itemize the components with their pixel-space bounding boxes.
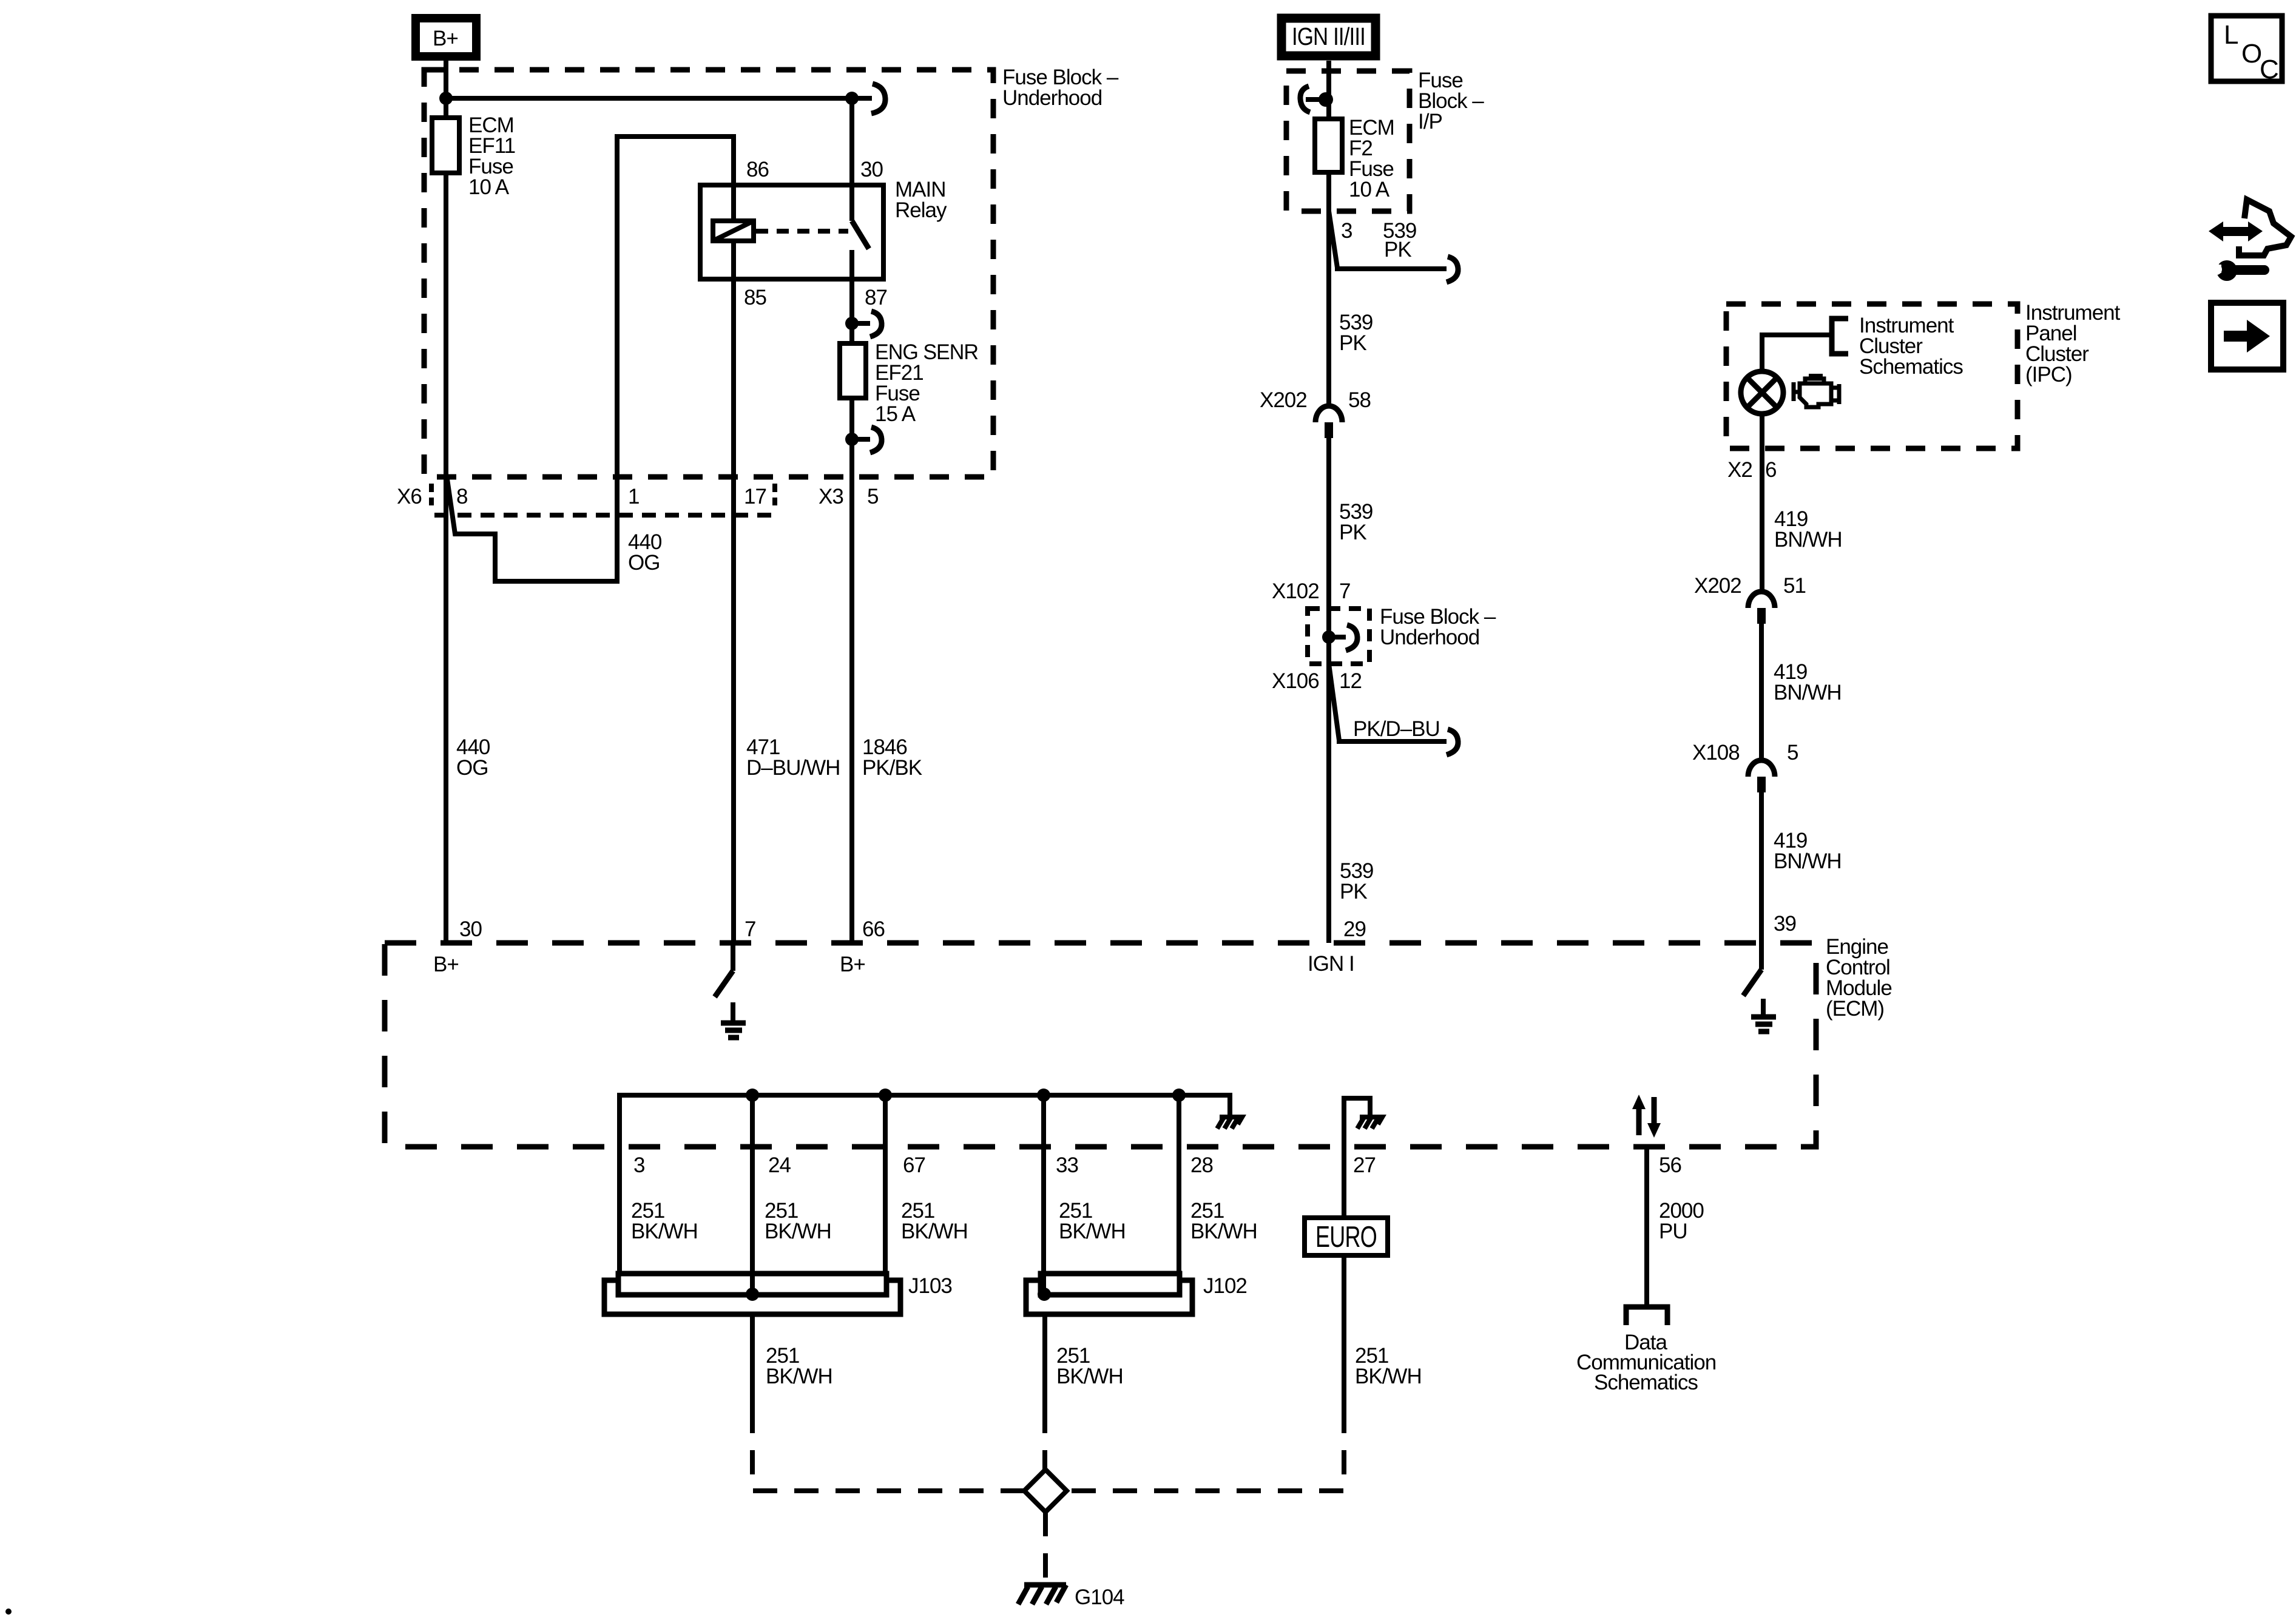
svg-text:58: 58 — [1348, 388, 1371, 412]
wire 251 BK/WH below J103 — [750, 1314, 755, 1409]
svg-text:7: 7 — [745, 917, 755, 941]
svg-text:X106: X106 — [1272, 669, 1319, 693]
svg-text:8: 8 — [456, 485, 467, 508]
svg-text:IGN I: IGN I — [1308, 952, 1354, 976]
svg-text:PK: PK — [1340, 880, 1367, 903]
splice pack J102 — [1026, 1274, 1192, 1314]
svg-text:X2: X2 — [1727, 458, 1752, 482]
wire 251 BK/WH below J102 — [1042, 1314, 1047, 1409]
connector X108 pin 5 in-line — [1748, 760, 1775, 792]
label wire 419 BN/WH lower — [1774, 829, 1842, 873]
label wire 251 BK/WH pin67 — [901, 1199, 968, 1243]
dashed box small Fuse Block - Underhood — [1308, 609, 1369, 664]
connector clip at F2 feed — [1300, 86, 1329, 112]
ground switch at ECM pin 7 — [715, 943, 733, 997]
node bus pin 67 — [879, 1089, 892, 1102]
svg-text:BK/WH: BK/WH — [765, 1220, 831, 1243]
wire ECM pin 28 — [1177, 1095, 1181, 1274]
svg-text:(ECM): (ECM) — [1826, 997, 1884, 1021]
label wire 419 BN/WH middle — [1774, 660, 1842, 704]
engine icon — [1794, 374, 1839, 407]
data link arrows at pin 56 — [1632, 1095, 1661, 1138]
label wire 251 BK/WH pin24 — [765, 1199, 831, 1243]
node junction at F2 feed — [1319, 92, 1333, 107]
svg-text:27: 27 — [1353, 1153, 1376, 1177]
svg-text:86: 86 — [746, 158, 769, 181]
wire lamp to cluster link — [1762, 335, 1832, 371]
indicator lamp MIL — [1741, 371, 1783, 414]
wire J102 feed pin 33 — [1041, 1274, 1046, 1294]
svg-text:Underhood: Underhood — [1380, 626, 1479, 649]
receptacle to data communication — [1626, 1307, 1667, 1325]
svg-text:51: 51 — [1783, 574, 1806, 598]
label wire 539 PK above X202 — [1339, 311, 1373, 355]
svg-text:39: 39 — [1774, 912, 1796, 936]
ground switch at ECM pin 39 — [1743, 943, 1761, 996]
label wire 2000 PU — [1659, 1199, 1704, 1243]
svg-text:BK/WH: BK/WH — [1059, 1220, 1126, 1243]
connector X6 dashed bracket — [431, 484, 775, 515]
svg-text:X6: X6 — [397, 485, 422, 508]
legend box LOC — [2211, 16, 2282, 84]
node junction at B+ feed — [439, 92, 453, 105]
label wire 471 D-BU/WH — [746, 735, 840, 780]
wire J103 feed pin 24 — [750, 1274, 755, 1294]
node in-line connector above EF21 — [845, 317, 859, 330]
node junction inside small fuse block — [1322, 630, 1335, 644]
svg-text:X102: X102 — [1272, 579, 1319, 603]
dashed ground wire from J102 — [1042, 1409, 1047, 1470]
chassis ground at bus end — [1217, 1117, 1242, 1129]
label fuse EF11 — [468, 113, 515, 199]
connector clip at end of B+ bus — [871, 84, 885, 113]
node J103 junction — [746, 1288, 759, 1301]
wire fuse EF21 to X3 pin 5 — [849, 398, 854, 477]
label Fuse Block - Underhood — [1002, 66, 1119, 110]
svg-text:J102: J102 — [1203, 1274, 1247, 1298]
label fuse F2 — [1349, 116, 1394, 201]
ECM internal ground bus — [620, 1095, 1230, 1274]
label MAIN Relay — [895, 178, 947, 222]
wire 419 BN/WH lower — [1759, 792, 1764, 943]
svg-text:15 A: 15 A — [875, 402, 916, 426]
label Instrument Cluster Schematics — [1859, 314, 1963, 379]
svg-text:PK: PK — [1384, 238, 1411, 262]
svg-text:5: 5 — [1787, 741, 1798, 765]
label wire 539 PK lower — [1340, 859, 1373, 903]
svg-text:24: 24 — [768, 1153, 791, 1177]
connector X202 pin 51 in-line — [1748, 592, 1775, 624]
svg-text:EURO: EURO — [1315, 1221, 1377, 1254]
svg-text:67: 67 — [903, 1153, 925, 1177]
dashed box Fuse Block - I/P — [1286, 71, 1410, 211]
svg-text:B+: B+ — [840, 953, 865, 976]
node bus pin 33 — [1037, 1089, 1050, 1102]
dashed box Engine Control Module ECM — [385, 943, 1816, 1147]
svg-text:BK/WH: BK/WH — [631, 1220, 698, 1243]
svg-text:(IPC): (IPC) — [2025, 363, 2072, 387]
svg-text:29: 29 — [1343, 917, 1366, 941]
node junction at relay pin 30 branch — [845, 92, 859, 105]
connector clip inside small fuse block — [1329, 625, 1357, 650]
node bus pin 24 — [746, 1089, 759, 1102]
svg-text:B+: B+ — [433, 953, 459, 976]
label wire 539 PK below X202 — [1339, 500, 1373, 544]
svg-text:X108: X108 — [1692, 741, 1740, 765]
svg-text:PK: PK — [1339, 521, 1366, 544]
svg-text:7: 7 — [1339, 579, 1350, 603]
label small Fuse Block - Underhood — [1380, 605, 1496, 649]
svg-text:30: 30 — [459, 917, 482, 941]
svg-text:BK/WH: BK/WH — [1355, 1365, 1422, 1388]
wire tap 539 PK at pin 3 — [1329, 211, 1458, 282]
label Instrument Panel Cluster (IPC) — [2025, 301, 2121, 387]
svg-text:10 A: 10 A — [468, 175, 510, 199]
relay actuation dashed link — [756, 229, 848, 234]
wire EURO ground jog — [1344, 1098, 1370, 1218]
svg-text:28: 28 — [1190, 1153, 1213, 1177]
svg-text:IGN II/III: IGN II/III — [1292, 22, 1365, 50]
svg-text:D–BU/WH: D–BU/WH — [746, 756, 840, 780]
relay switch contact — [852, 98, 869, 279]
dashed ground wire from J103 — [752, 1409, 1024, 1491]
svg-text:G104: G104 — [1075, 1585, 1124, 1609]
svg-text:BN/WH: BN/WH — [1774, 681, 1842, 704]
splice pack J103 — [604, 1274, 900, 1314]
label wire 440 OG — [456, 735, 490, 780]
page dot — [5, 1609, 12, 1615]
icon double arrow — [2209, 221, 2263, 241]
ground G104 — [1018, 1585, 1066, 1604]
node in-line connector below EF21 — [845, 433, 859, 446]
svg-text:6: 6 — [1765, 458, 1776, 482]
earth ground at pin 7 — [721, 1002, 746, 1038]
svg-text:Schematics: Schematics — [1594, 1371, 1698, 1394]
svg-text:66: 66 — [862, 917, 885, 941]
svg-text:PK: PK — [1339, 331, 1366, 355]
node J102 junction — [1038, 1288, 1051, 1301]
svg-text:J103: J103 — [908, 1274, 952, 1298]
svg-text:17: 17 — [744, 485, 766, 508]
svg-text:1: 1 — [628, 485, 639, 508]
label Data Communication Schematics — [1576, 1331, 1716, 1394]
svg-text:OG: OG — [456, 756, 488, 780]
wire IGN II/III feed — [1326, 61, 1331, 119]
svg-text:PK/BK: PK/BK — [862, 756, 922, 780]
label wire 539 PK tap — [1383, 219, 1416, 262]
wire 419 BN/WH middle — [1759, 624, 1764, 760]
wire tap PK/D-BU — [1329, 664, 1458, 755]
svg-text:PU: PU — [1659, 1220, 1687, 1243]
svg-text:10 A: 10 A — [1349, 178, 1390, 201]
wire ECM pin 33 — [1041, 1095, 1046, 1274]
earth ground at pin 39 — [1751, 999, 1776, 1031]
svg-text:3: 3 — [1341, 219, 1352, 243]
wire ECM pin 67 — [883, 1095, 888, 1274]
label Engine Control Module (ECM) — [1826, 935, 1892, 1021]
flag EURO — [1305, 1218, 1388, 1255]
connector X202 pin 58 in-line — [1315, 406, 1342, 438]
svg-text:3: 3 — [633, 1153, 644, 1177]
svg-text:Relay: Relay — [895, 198, 947, 222]
label wire 419 BN/WH upper — [1774, 507, 1842, 552]
label Fuse Block - I/P — [1418, 69, 1484, 133]
svg-text:BK/WH: BK/WH — [1056, 1365, 1123, 1388]
svg-text:I/P: I/P — [1418, 110, 1442, 133]
wire fuse F2 down — [1326, 172, 1331, 406]
svg-text:C: C — [2260, 55, 2278, 84]
legend arrow box — [2211, 303, 2283, 370]
svg-text:30: 30 — [860, 158, 883, 181]
svg-text:33: 33 — [1056, 1153, 1078, 1177]
svg-text:BK/WH: BK/WH — [766, 1365, 832, 1388]
svg-text:O: O — [2241, 39, 2261, 69]
connector clip above EF21 — [852, 311, 882, 337]
wire from B+ flag to fuse block — [444, 61, 448, 98]
label wire 251 BK/WH pin28 — [1190, 1199, 1257, 1243]
relay coil — [713, 185, 754, 279]
relay MAIN box — [700, 185, 883, 279]
dashed ground wire from EURO — [1067, 1409, 1344, 1491]
wire relay pin 87 to fuse EF21 — [849, 279, 854, 343]
connector clip below EF21 — [852, 427, 882, 453]
wire 471 D-BU/WH to ECM pin 7 — [731, 477, 736, 943]
wire ECM pin 24 — [750, 1095, 755, 1274]
wire 1846 PK/BK to ECM pin 66 — [849, 477, 854, 943]
label wire 251 BK/WH below EURO — [1355, 1344, 1422, 1388]
node bus pin 28 — [1172, 1089, 1186, 1102]
icon electrical diagnosis connector — [2239, 200, 2291, 255]
wire B+ bus inside fuse block — [446, 96, 872, 101]
power flag B+ — [416, 18, 476, 56]
svg-text:87: 87 — [865, 286, 887, 309]
label wire 251 BK/WH below J103 — [766, 1344, 832, 1388]
label wire 251 BK/WH pin33 — [1059, 1199, 1126, 1243]
svg-text:X3: X3 — [819, 485, 843, 508]
wire 2000 PU — [1644, 1147, 1649, 1305]
svg-text:5: 5 — [867, 485, 878, 508]
label wire 251 BK/WH below J102 — [1056, 1344, 1123, 1388]
wire jog from pin 8 to pin 1 (440 OG loop) — [447, 137, 734, 581]
bracket to instrument cluster schematics — [1832, 319, 1848, 354]
fuse F2 ECM 10A — [1315, 119, 1342, 172]
svg-text:BK/WH: BK/WH — [901, 1220, 968, 1243]
svg-text:L: L — [2224, 20, 2238, 50]
svg-text:PK/D–BU: PK/D–BU — [1353, 717, 1440, 741]
wire 440 OG to ECM pin 30 — [444, 477, 448, 943]
svg-text:Underhood: Underhood — [1002, 86, 1102, 110]
dashed box Fuse Block - Underhood — [424, 70, 993, 477]
svg-text:X202: X202 — [1694, 574, 1741, 598]
svg-text:Schematics: Schematics — [1859, 355, 1963, 379]
splice diamond at G104 — [1024, 1470, 1067, 1512]
dashed wire diamond to G104 — [1043, 1512, 1048, 1584]
svg-text:X202: X202 — [1260, 388, 1307, 412]
svg-text:B+: B+ — [433, 27, 458, 50]
icon wrench — [2211, 260, 2269, 281]
label wire 440 OG upper — [628, 530, 662, 575]
wire 251 BK/WH below EURO — [1342, 1255, 1346, 1409]
fuse EF11 ECM 10A — [432, 98, 459, 477]
wire relay pin 85 to pin 17 — [731, 279, 736, 477]
svg-text:OG: OG — [628, 551, 660, 575]
chassis ground at pin 27 — [1357, 1117, 1382, 1129]
wire lamp to X2 pin 6 — [1760, 414, 1764, 592]
fuse EF21 ENG SENR 15A — [840, 343, 866, 398]
svg-text:BK/WH: BK/WH — [1190, 1220, 1257, 1243]
label wire 1846 PK/BK — [862, 735, 922, 780]
svg-text:85: 85 — [744, 286, 766, 309]
svg-text:BN/WH: BN/WH — [1774, 849, 1842, 873]
dashed box Instrument Panel Cluster — [1726, 304, 2017, 448]
power flag IGN II/III — [1281, 18, 1376, 56]
label fuse EF21 — [875, 340, 978, 426]
svg-text:56: 56 — [1659, 1153, 1681, 1177]
svg-text:BN/WH: BN/WH — [1774, 528, 1842, 552]
label wire 251 BK/WH pin3 — [631, 1199, 698, 1243]
svg-text:12: 12 — [1339, 669, 1362, 693]
